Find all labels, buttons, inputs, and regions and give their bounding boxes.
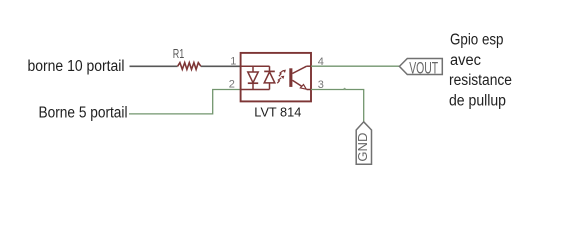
- svg-text:avec: avec: [450, 52, 481, 69]
- phototransistor emitter line: [292, 80, 302, 87]
- junction nub on pin 3 wire: [344, 88, 346, 90]
- svg-text:GND: GND: [355, 133, 370, 162]
- pin 4 internal stub: [307, 65, 311, 67]
- phototransistor emitter arrowhead: [300, 85, 306, 90]
- svg-text:2: 2: [229, 78, 235, 90]
- LED D2 branch bottom stub: [269, 83, 271, 90]
- power symbol GND outline: [356, 122, 371, 165]
- wire borne5 to pin 2: [129, 90, 241, 114]
- LED D1 triangle (pointing down): [248, 72, 258, 83]
- svg-text:Borne 5 portail: Borne 5 portail: [39, 105, 128, 122]
- pin 2 internal rail (bottom): [241, 89, 270, 91]
- svg-text:R1: R1: [173, 47, 185, 61]
- LED D2 triangle (pointing up): [264, 72, 275, 83]
- LED D2 cathode bar: [264, 70, 275, 72]
- svg-text:de pullup: de pullup: [449, 92, 506, 109]
- optocoupler U1 body box: [241, 53, 311, 102]
- wire pin 4 to VOUT: [311, 65, 399, 67]
- net label VOUT outline: [399, 59, 442, 75]
- photon arrow upper: [279, 71, 283, 76]
- LED D1 cathode bar: [248, 82, 258, 84]
- wire pin 3 to GND: [311, 90, 364, 122]
- svg-text:LVT 814: LVT 814: [254, 105, 301, 120]
- pin 3 internal stub: [307, 89, 311, 91]
- svg-text:VOUT: VOUT: [409, 59, 438, 77]
- LED D1 branch top stub: [252, 66, 254, 72]
- LED D1 branch bottom stub: [252, 83, 254, 89]
- resistor R1: [178, 63, 201, 70]
- svg-text:borne 10 portail: borne 10 portail: [28, 58, 125, 75]
- wire R1 to pin 1: [201, 65, 241, 67]
- phototransistor Q base bar: [289, 68, 292, 87]
- svg-text:resistance: resistance: [449, 72, 512, 89]
- svg-text:Gpio esp: Gpio esp: [450, 32, 504, 49]
- photon arrow lower: [277, 78, 281, 83]
- svg-text:1: 1: [230, 56, 236, 68]
- phototransistor collector line: [292, 66, 306, 73]
- wire borne10 to R1: [130, 65, 178, 67]
- LED D2 branch top stub: [269, 66, 271, 71]
- pin 1 internal rail (anode top): [241, 65, 270, 67]
